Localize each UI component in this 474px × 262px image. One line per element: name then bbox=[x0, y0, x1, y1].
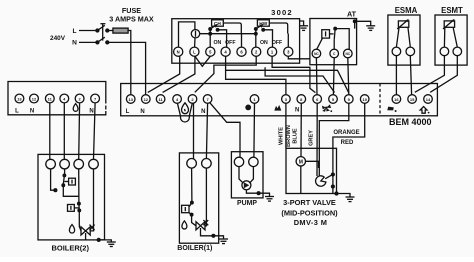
break tick left box bbox=[105, 106, 107, 110]
terminal P4 bbox=[221, 47, 230, 56]
terminal A11 bbox=[45, 94, 54, 103]
wire pump a bbox=[239, 167, 243, 184]
wire AT top right bbox=[355, 21, 371, 28]
svg-text:10: 10 bbox=[362, 97, 367, 102]
svg-text:BROWN: BROWN bbox=[286, 125, 292, 147]
svg-text:NC: NC bbox=[314, 52, 319, 56]
fuse F1 bbox=[113, 28, 128, 33]
terminal block left box bbox=[8, 82, 106, 115]
wire boiler1 b down bbox=[205, 168, 206, 226]
wire P1 to strip 6 bbox=[272, 56, 315, 92]
terminal 6 bbox=[313, 95, 322, 104]
wire AT NC2 to strip 9 bbox=[348, 58, 349, 95]
node CH pivot bbox=[209, 28, 212, 31]
stat ST1 boiler2 bbox=[69, 178, 76, 185]
boiler 1 terminal b bbox=[202, 159, 212, 169]
svg-text:(MID-POSITION): (MID-POSITION) bbox=[281, 208, 338, 217]
wire ESMA a to 16 bbox=[395, 56, 397, 95]
node L switch b bbox=[106, 29, 109, 32]
node boiler1 stat top bbox=[191, 201, 194, 204]
svg-text:N: N bbox=[295, 108, 299, 114]
svg-text:NC: NC bbox=[345, 52, 350, 56]
svg-text:AT: AT bbox=[347, 10, 357, 19]
terminal P5 bbox=[206, 47, 215, 56]
svg-text:N: N bbox=[89, 109, 93, 115]
terminal 9 bbox=[345, 95, 354, 104]
wire pump b bbox=[250, 167, 254, 184]
stat ST boiler1 bbox=[182, 205, 189, 212]
svg-text:ESMT: ESMT bbox=[441, 6, 463, 15]
wire ESMT sensor a bbox=[443, 28, 445, 47]
terminal 13 bbox=[126, 95, 135, 104]
wire ESMA sensor b bbox=[408, 28, 410, 47]
wire A2 down bbox=[78, 103, 81, 159]
wire P2 up bbox=[255, 29, 257, 47]
wire HW on to P1 bbox=[263, 30, 272, 47]
svg-text:DMV-3 M: DMV-3 M bbox=[294, 218, 328, 227]
valve box bbox=[286, 148, 337, 193]
wire strip7 to boiler1 bbox=[206, 103, 207, 158]
terminal 15 bbox=[408, 95, 417, 104]
svg-text:3002: 3002 bbox=[271, 8, 293, 17]
jumper terminals 4-2 bbox=[177, 103, 192, 122]
terminal 4 bbox=[173, 95, 182, 104]
wire N mains bbox=[79, 41, 97, 43]
svg-text:3-PORT VALVE: 3-PORT VALVE bbox=[283, 198, 336, 207]
switch SW1 L blade bbox=[97, 25, 104, 30]
ground valve bbox=[337, 194, 355, 202]
node HW pivot bbox=[255, 28, 258, 31]
label CH bbox=[212, 20, 224, 27]
wire boiler2 b down bbox=[64, 169, 66, 175]
terminal ESMT b bbox=[453, 47, 462, 56]
svg-text:BOILER(2): BOILER(2) bbox=[51, 243, 89, 252]
node boiler2 stat1 bottom bbox=[62, 184, 65, 187]
wire P5 up bbox=[209, 29, 211, 47]
gas valve boiler2 bbox=[81, 225, 95, 235]
svg-text:N: N bbox=[201, 109, 205, 115]
flame icon left box bbox=[73, 104, 78, 112]
svg-text:OFF: OFF bbox=[225, 40, 235, 46]
svg-text:N: N bbox=[72, 39, 77, 46]
svg-text:M: M bbox=[299, 159, 303, 165]
node valve contact top bbox=[332, 173, 335, 176]
wire AT fixed to NC2 bbox=[335, 29, 349, 50]
svg-text:14: 14 bbox=[426, 97, 431, 102]
boiler 1 terminal a bbox=[187, 159, 197, 169]
terminal P1 bbox=[268, 47, 277, 56]
boiler 2 terminal b bbox=[60, 159, 70, 169]
svg-text:ORANGE: ORANGE bbox=[333, 130, 359, 136]
svg-text:12: 12 bbox=[144, 97, 149, 102]
switch HW blade bbox=[256, 24, 264, 29]
svg-text:OFF: OFF bbox=[272, 40, 282, 46]
wire M right bbox=[306, 161, 319, 168]
svg-text:240V: 240V bbox=[50, 35, 66, 42]
terminal ESMA a bbox=[392, 47, 401, 56]
wire PN to lamp bbox=[179, 22, 195, 47]
wire AT C to strip 5 bbox=[332, 58, 335, 95]
wire P4 to strip 9 bbox=[226, 56, 349, 93]
pump motor symbol bbox=[242, 181, 251, 190]
sensor ESMT box bbox=[435, 15, 467, 65]
boiler 2 box bbox=[38, 154, 105, 240]
wire stat2 to valve bbox=[79, 210, 81, 230]
wire lamp bus bbox=[200, 33, 256, 35]
wire ESMA sensor a bbox=[396, 28, 399, 47]
terminal A13 bbox=[15, 94, 24, 103]
terminal A7 bbox=[91, 94, 100, 103]
terminal 14 bbox=[424, 95, 433, 104]
terminal 3 bbox=[282, 95, 291, 104]
terminal P-N bbox=[174, 47, 183, 56]
terminal 16 bbox=[392, 95, 401, 104]
node boiler2 stat2 bottom bbox=[78, 209, 81, 212]
wire PN to strip 12 bbox=[148, 56, 180, 92]
svg-text:GREY: GREY bbox=[308, 130, 314, 146]
svg-text:16: 16 bbox=[394, 97, 399, 102]
node boiler2 earth bbox=[97, 238, 100, 241]
node boiler1 earth bbox=[212, 234, 215, 237]
ground boiler2 bbox=[99, 240, 116, 247]
node bus 2 bbox=[255, 32, 258, 35]
flame icon boiler1 bbox=[182, 221, 187, 229]
jumper L to 5 bbox=[195, 56, 210, 66]
switch link bbox=[100, 24, 105, 41]
terminal ESMT a bbox=[440, 47, 449, 56]
svg-text:L: L bbox=[15, 109, 19, 115]
burner icon strip bbox=[274, 105, 281, 111]
svg-text:PUMP: PUMP bbox=[237, 200, 257, 207]
svg-text:N: N bbox=[177, 50, 180, 55]
pump terminal a bbox=[234, 157, 243, 166]
node valve contact mid bbox=[332, 185, 335, 188]
wire strip9 orange bbox=[319, 103, 349, 176]
switch AT blade bbox=[334, 29, 335, 40]
svg-text:L: L bbox=[126, 109, 130, 115]
stat ST2 boiler2 bbox=[68, 205, 75, 212]
wire A7 down bbox=[94, 103, 96, 159]
node HW on bbox=[262, 29, 265, 32]
wire strip10 red bbox=[333, 103, 365, 174]
svg-text:L: L bbox=[193, 50, 196, 55]
svg-text:WHITE: WHITE bbox=[279, 127, 285, 145]
thermistor ESMT bbox=[443, 19, 455, 29]
svg-text:13: 13 bbox=[128, 97, 133, 102]
wire bus to strip 5 bbox=[265, 67, 334, 92]
wire P6 up bbox=[241, 34, 243, 48]
switch CH blade bbox=[210, 24, 218, 29]
thermostat contact boiler2 bbox=[63, 175, 64, 184]
svg-text:3 AMPS MAX: 3 AMPS MAX bbox=[109, 14, 154, 23]
wire pump earth bbox=[246, 190, 258, 193]
terminal AT NC2 bbox=[344, 49, 353, 58]
wire ESMT b to 14 bbox=[430, 56, 457, 93]
wire valve contact bbox=[332, 175, 334, 194]
terminal strip BEM 4000 box bbox=[121, 84, 438, 116]
ground AT bbox=[366, 26, 375, 31]
svg-text:ON: ON bbox=[260, 40, 268, 46]
terminal ESMA b bbox=[406, 47, 415, 56]
wire valve to earth boiler1 bbox=[201, 228, 214, 236]
terminal A2 bbox=[75, 94, 84, 103]
sensor ESMA box bbox=[388, 15, 420, 65]
wire stat1 link bbox=[64, 181, 68, 183]
terminal P6 bbox=[237, 47, 246, 56]
wire strip6 grey bbox=[316, 103, 318, 176]
terminal 10 bbox=[360, 95, 369, 104]
svg-text:15: 15 bbox=[410, 97, 415, 102]
link CH knob bbox=[223, 23, 241, 34]
wire stat2 link bbox=[74, 207, 79, 209]
wire strip8 blue bbox=[300, 103, 302, 156]
wire strip7 to pump bbox=[210, 102, 241, 157]
node pump earth bbox=[257, 192, 260, 195]
wire ESMA b to 15 bbox=[410, 56, 411, 95]
wire AT NC1 up bbox=[317, 38, 323, 49]
ground boiler1 bbox=[213, 236, 228, 244]
svg-text:ESMA: ESMA bbox=[395, 6, 418, 15]
wire P3 link bbox=[288, 56, 310, 59]
terminal 11 bbox=[156, 95, 165, 104]
thermistor ESMA bbox=[397, 19, 409, 29]
wire boiler2 d down bbox=[90, 169, 93, 231]
terminal 5 bbox=[329, 95, 338, 104]
flame icon strip bbox=[182, 103, 189, 114]
lamp L1 programmer bbox=[191, 30, 199, 38]
svg-text:ON: ON bbox=[214, 40, 222, 46]
node valve earth corner bbox=[335, 192, 338, 195]
terminal A12 bbox=[30, 94, 39, 103]
ground pump bbox=[259, 193, 274, 201]
thermostat contact2 boiler2 bbox=[78, 204, 80, 211]
wire ESMT sensor b bbox=[453, 28, 457, 47]
wire strip3 white bbox=[285, 103, 287, 148]
wire strip1 to pump bbox=[253, 103, 256, 157]
label FUSE 3 AMPS MAX bbox=[109, 6, 154, 23]
rotary switch valve bbox=[316, 176, 326, 186]
fan icon strip bbox=[322, 104, 332, 112]
wire AT NC1 to strip 6 bbox=[315, 58, 318, 95]
node CH on bbox=[216, 29, 219, 32]
pump terminal b bbox=[249, 157, 258, 166]
wire L mains bbox=[79, 30, 97, 32]
svg-text:BEM 4000: BEM 4000 bbox=[389, 117, 432, 127]
wire lamp to L bbox=[194, 38, 196, 47]
node boiler2 j1 bbox=[54, 189, 57, 192]
terminal P3 bbox=[284, 47, 293, 56]
wire PL to strip 11 bbox=[163, 56, 195, 92]
motor M valve bbox=[296, 157, 305, 166]
strip divider dashed bbox=[379, 84, 381, 116]
node bus 5 bbox=[209, 32, 212, 35]
terminal 12 bbox=[142, 95, 151, 104]
node AT top right bbox=[353, 20, 356, 23]
terminal P2 bbox=[252, 47, 261, 56]
terminal 8 bbox=[297, 95, 306, 104]
flame icon boiler2 bbox=[69, 225, 74, 234]
pump box bbox=[231, 152, 263, 198]
pump dot icon strip bbox=[245, 105, 251, 111]
terminal 7 bbox=[203, 95, 212, 104]
wire fuse out bbox=[128, 31, 131, 95]
boiler 2 terminal d bbox=[89, 159, 99, 169]
wire AT sensor link bbox=[330, 33, 334, 35]
gas valve boiler1 bbox=[196, 220, 208, 230]
wire boiler1 a down bbox=[191, 168, 193, 202]
svg-text:L: L bbox=[72, 28, 76, 35]
wire boiler2 a down bbox=[51, 169, 55, 190]
svg-text:RED: RED bbox=[341, 140, 354, 146]
wire P4 to strip 3 bbox=[226, 70, 286, 94]
terminal AT NC1 bbox=[312, 49, 321, 58]
boiler 1 box bbox=[179, 153, 218, 243]
node N switch a bbox=[96, 41, 99, 44]
label HW bbox=[257, 20, 269, 27]
wire valve to bottom bbox=[85, 233, 87, 240]
node boiler2 stat1 top bbox=[63, 174, 66, 177]
wire ESMT a to 15 bbox=[415, 56, 445, 93]
stat sensor AT bbox=[322, 30, 330, 38]
wire AT to C bbox=[333, 40, 335, 49]
boiler 2 terminal c bbox=[74, 159, 84, 169]
terminal 2 bbox=[188, 95, 197, 104]
thermostat contact boiler1 bbox=[189, 203, 192, 207]
svg-text:13: 13 bbox=[17, 96, 22, 101]
svg-text:BLUE: BLUE bbox=[293, 128, 299, 143]
svg-text:N: N bbox=[140, 109, 144, 115]
wire strip2 to boiler1 bbox=[193, 103, 195, 158]
switch valve blade bbox=[325, 175, 332, 179]
ground 3002 bbox=[299, 21, 308, 30]
wire M down bbox=[300, 166, 302, 194]
node boiler2 stat2 top bbox=[78, 202, 81, 205]
wire P3 up bbox=[287, 34, 289, 48]
flag icon strip 16 bbox=[387, 107, 396, 112]
terminal A4 bbox=[60, 94, 69, 103]
thermostat AT box bbox=[310, 19, 357, 65]
terminal P-L bbox=[190, 47, 199, 56]
wire boiler2 c down bbox=[78, 169, 80, 203]
terminal 1 bbox=[250, 95, 259, 104]
boiler 2 terminal a bbox=[46, 159, 56, 169]
wire boiler2 chain down bbox=[63, 185, 79, 196]
node boiler1 stat bottom bbox=[190, 213, 193, 216]
wire L to fuse bbox=[107, 30, 113, 32]
terminal AT C bbox=[330, 49, 339, 58]
wire A11 down bbox=[49, 103, 51, 159]
node L switch a bbox=[96, 29, 99, 32]
wire P2 to strip 2 bbox=[195, 56, 256, 92]
node AT contact bbox=[334, 27, 337, 30]
wire N to terminal 12 bbox=[107, 42, 145, 94]
svg-text:BOILER(1): BOILER(1) bbox=[177, 245, 212, 252]
svg-text:12: 12 bbox=[32, 96, 37, 101]
wire stat to valve boiler1 bbox=[189, 213, 196, 226]
programmer 3002 box bbox=[172, 19, 300, 64]
wire A4 down bbox=[63, 103, 65, 159]
node N switch b bbox=[106, 41, 109, 44]
link HW knob bbox=[269, 23, 287, 34]
svg-text:N: N bbox=[30, 109, 34, 115]
arrow icon strip 14 bbox=[420, 107, 429, 114]
switch SW1 N blade bbox=[97, 37, 104, 42]
wire CH on to P4 bbox=[218, 30, 227, 47]
